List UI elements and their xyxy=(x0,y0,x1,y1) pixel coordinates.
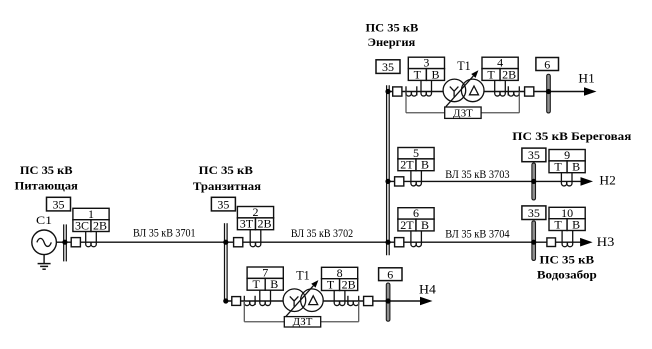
relay box 7 xyxy=(247,266,283,292)
voltage box 35 Энергия xyxy=(376,60,400,74)
CT box 1 xyxy=(86,232,97,247)
svg-text:35: 35 xyxy=(53,197,65,211)
wire feeder Н4 right xyxy=(390,300,421,302)
svg-text:ВЛ 35 кВ 3703: ВЛ 35 кВ 3703 xyxy=(445,169,510,181)
svg-text:6: 6 xyxy=(413,206,419,220)
CT box 3 xyxy=(421,80,432,96)
CT box 4 xyxy=(495,80,506,96)
breaker 3704 xyxy=(395,238,404,247)
label T1 Транзитная xyxy=(296,267,309,282)
node Энергия bus 3702 xyxy=(385,240,390,245)
svg-text:2Т: 2Т xyxy=(400,218,414,232)
svg-text:Питающая: Питающая xyxy=(15,178,79,192)
substation title ПС 35 кВ Береговая xyxy=(512,129,632,143)
svg-text:5: 5 xyxy=(413,146,419,160)
svg-text:Т1: Т1 xyxy=(296,267,309,282)
node Транзитная bus Н4 xyxy=(223,298,228,303)
node busbar Н4 xyxy=(386,298,391,303)
CT ДЗТ Транзитная left xyxy=(244,296,284,322)
svg-text:Т: Т xyxy=(487,67,495,81)
svg-text:ПС 35 кВ: ПС 35 кВ xyxy=(366,21,419,35)
svg-text:Т1: Т1 xyxy=(457,58,470,73)
label T1 Энергия xyxy=(457,58,470,73)
wire Транзитная feeder Н4 mid xyxy=(323,300,386,302)
svg-text:3Т: 3Т xyxy=(240,217,254,231)
relay box 2 xyxy=(237,205,273,231)
label ВЛ 35 кВ 3703 xyxy=(445,169,510,181)
wire feeder Н3 xyxy=(536,241,582,243)
wire Транзитная feeder Н4 left xyxy=(227,300,283,302)
svg-text:ПС 35 кВ: ПС 35 кВ xyxy=(540,253,595,267)
wire ВЛ 35 кВ 3703 xyxy=(389,180,532,182)
CT ДЗТ Энергия right xyxy=(481,86,519,113)
transformer T1 Энергия xyxy=(443,70,484,106)
CT box 7 xyxy=(260,290,271,305)
breaker Энергия T1 left xyxy=(393,87,402,96)
relay box 8 xyxy=(322,266,358,292)
svg-text:2В: 2В xyxy=(342,277,356,291)
svg-text:Транзитная: Транзитная xyxy=(193,179,262,193)
svg-text:6: 6 xyxy=(387,268,393,282)
breaker Н4 right xyxy=(364,296,373,305)
label Н4 xyxy=(419,281,436,296)
node Питающая bus xyxy=(62,240,67,245)
label ВЛ 35 кВ 3704 xyxy=(445,229,510,241)
svg-text:Т: Т xyxy=(554,217,562,231)
box 6 Энергия feeder xyxy=(536,57,559,71)
wire Энергия feeder right xyxy=(484,91,547,93)
wire Энергия feeder left xyxy=(389,91,443,93)
svg-text:Н4: Н4 xyxy=(419,281,436,296)
svg-text:3С: 3С xyxy=(75,218,89,232)
busbar Водозабор xyxy=(532,221,536,261)
busbar Береговая xyxy=(532,163,536,200)
svg-text:Н1: Н1 xyxy=(578,70,594,85)
transformer T1 Транзитная xyxy=(283,280,323,316)
svg-text:В: В xyxy=(421,218,429,232)
CT box 8 xyxy=(334,291,345,306)
node Транзитная bus 3701 xyxy=(223,240,228,245)
wire feeder Н1 xyxy=(550,91,585,93)
svg-text:В: В xyxy=(270,277,278,291)
svg-text:Н2: Н2 xyxy=(599,172,615,187)
CT ДЗТ Транзитная right xyxy=(321,296,359,322)
relay box 4 xyxy=(482,56,518,82)
svg-text:Н3: Н3 xyxy=(597,234,615,249)
svg-text:ПС 35 кВ: ПС 35 кВ xyxy=(199,163,253,177)
node Водозабор bus xyxy=(531,240,536,245)
busbar Питающая xyxy=(64,224,67,261)
label Н1 xyxy=(578,70,594,85)
svg-text:3: 3 xyxy=(423,56,429,70)
wire generator stub xyxy=(56,241,64,243)
svg-text:9: 9 xyxy=(564,148,570,162)
svg-text:ВЛ 35 кВ 3704: ВЛ 35 кВ 3704 xyxy=(445,229,510,241)
substation title ПС 35 кВ Транзитная xyxy=(193,163,262,193)
breaker Энергия T1 right xyxy=(525,87,534,96)
label Н2 xyxy=(599,172,615,187)
relay box 1 xyxy=(73,207,109,233)
svg-text:Т: Т xyxy=(327,277,335,291)
svg-text:7: 7 xyxy=(262,266,268,280)
substation title ПС 35 кВ Питающая xyxy=(15,163,79,193)
svg-text:2В: 2В xyxy=(93,218,107,232)
breaker 3701 xyxy=(71,238,80,247)
relay box 9 xyxy=(549,148,585,174)
breaker 3702 xyxy=(234,238,243,247)
ground xyxy=(38,255,51,270)
svg-text:В: В xyxy=(431,67,439,81)
wire ВЛ 35 кВ 3702 xyxy=(227,241,387,243)
svg-text:ПС 35 кВ Береговая: ПС 35 кВ Береговая xyxy=(512,129,632,143)
node Береговая bus xyxy=(531,179,536,184)
breaker Н4 left xyxy=(232,297,241,306)
relay box 10 xyxy=(549,206,585,232)
breaker Н3 xyxy=(547,238,556,247)
busbar Транзитная xyxy=(225,223,228,302)
CT ДЗТ Энергия left xyxy=(406,86,445,113)
svg-text:6: 6 xyxy=(544,57,550,71)
CT box 2 xyxy=(250,230,261,247)
wire feeder Н2 xyxy=(536,180,582,182)
arrow Н2 xyxy=(581,177,594,186)
voltage box 35 Транзитная xyxy=(211,197,235,211)
CT box 10 xyxy=(562,231,573,247)
svg-text:35: 35 xyxy=(528,206,540,220)
wire ВЛ 35 кВ 3704 xyxy=(389,241,532,243)
svg-text:35: 35 xyxy=(528,148,540,162)
svg-text:ПС 35 кВ: ПС 35 кВ xyxy=(20,163,73,177)
box 6 Н4 feeder xyxy=(379,268,402,282)
busbar Энергия xyxy=(387,85,390,255)
relay box 6 xyxy=(398,206,434,232)
svg-text:В: В xyxy=(572,217,580,231)
arrow Н3 xyxy=(580,238,593,247)
relay ДЗТ Транзитная xyxy=(284,316,320,328)
svg-text:С1: С1 xyxy=(36,213,52,227)
busbar Н1 xyxy=(547,74,551,113)
wire ВЛ 35 кВ 3701 xyxy=(66,241,225,243)
svg-text:2Т: 2Т xyxy=(400,158,414,172)
label C1 xyxy=(36,213,52,227)
svg-text:Т: Т xyxy=(252,277,260,291)
node Энергия bus feeder xyxy=(385,89,390,94)
svg-text:2В: 2В xyxy=(258,217,272,231)
svg-text:Т: Т xyxy=(414,67,422,81)
svg-text:Водозабор: Водозабор xyxy=(537,268,597,282)
voltage box 35 Питающая xyxy=(47,197,71,211)
substation title ПС 35 кВ Водозабор xyxy=(537,253,597,282)
voltage box 35 Береговая xyxy=(522,148,546,162)
CT box 6 xyxy=(411,231,422,247)
label ВЛ 35 кВ 3702 xyxy=(291,228,353,240)
generator C1 xyxy=(32,230,57,255)
arrow Н4 xyxy=(420,297,433,306)
svg-text:35: 35 xyxy=(382,60,394,74)
label Н3 xyxy=(597,234,615,249)
label ВЛ 35 кВ 3701 xyxy=(133,227,196,239)
svg-text:В: В xyxy=(572,160,580,174)
svg-text:Т: Т xyxy=(554,160,562,174)
svg-text:В: В xyxy=(421,158,429,172)
relay box 3 xyxy=(408,56,444,82)
relay box 5 xyxy=(398,146,434,172)
node Энергия bus 3703 xyxy=(385,179,390,184)
node busbar Н1 xyxy=(546,89,551,94)
svg-text:2В: 2В xyxy=(502,67,516,81)
relay ДЗТ Энергия xyxy=(445,107,481,119)
svg-text:ДЗТ: ДЗТ xyxy=(453,107,473,119)
svg-text:35: 35 xyxy=(217,197,229,211)
busbar Н4 xyxy=(386,283,390,321)
CT box 9 xyxy=(561,173,572,186)
arrow Н1 xyxy=(584,87,597,96)
svg-text:Энергия: Энергия xyxy=(368,35,416,49)
svg-text:ДЗТ: ДЗТ xyxy=(293,316,313,328)
breaker 3703 xyxy=(395,177,404,186)
svg-text:ВЛ 35 кВ 3701: ВЛ 35 кВ 3701 xyxy=(133,227,196,239)
svg-text:ВЛ 35 кВ 3702: ВЛ 35 кВ 3702 xyxy=(291,228,353,240)
CT box 5 xyxy=(411,171,422,186)
substation title ПС 35 кВ Энергия xyxy=(366,21,419,49)
voltage box 35 Водозабор xyxy=(522,206,546,220)
